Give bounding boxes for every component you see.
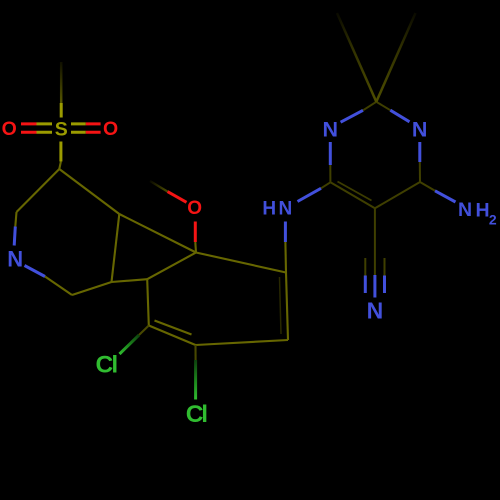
svg-text:N: N xyxy=(458,199,472,221)
svg-text:l: l xyxy=(201,401,208,428)
svg-text:O: O xyxy=(187,198,202,219)
svg-text:S: S xyxy=(55,118,68,140)
svg-text:N: N xyxy=(412,118,428,142)
svg-text:O: O xyxy=(103,118,118,140)
svg-text:O: O xyxy=(2,118,17,140)
svg-text:l: l xyxy=(111,351,118,378)
svg-text:H: H xyxy=(475,199,489,221)
svg-text:H: H xyxy=(262,199,276,220)
svg-text:N: N xyxy=(279,199,293,220)
svg-text:2: 2 xyxy=(489,212,497,228)
svg-text:N: N xyxy=(323,118,339,142)
svg-text:N: N xyxy=(367,298,384,324)
svg-text:N: N xyxy=(7,246,23,271)
